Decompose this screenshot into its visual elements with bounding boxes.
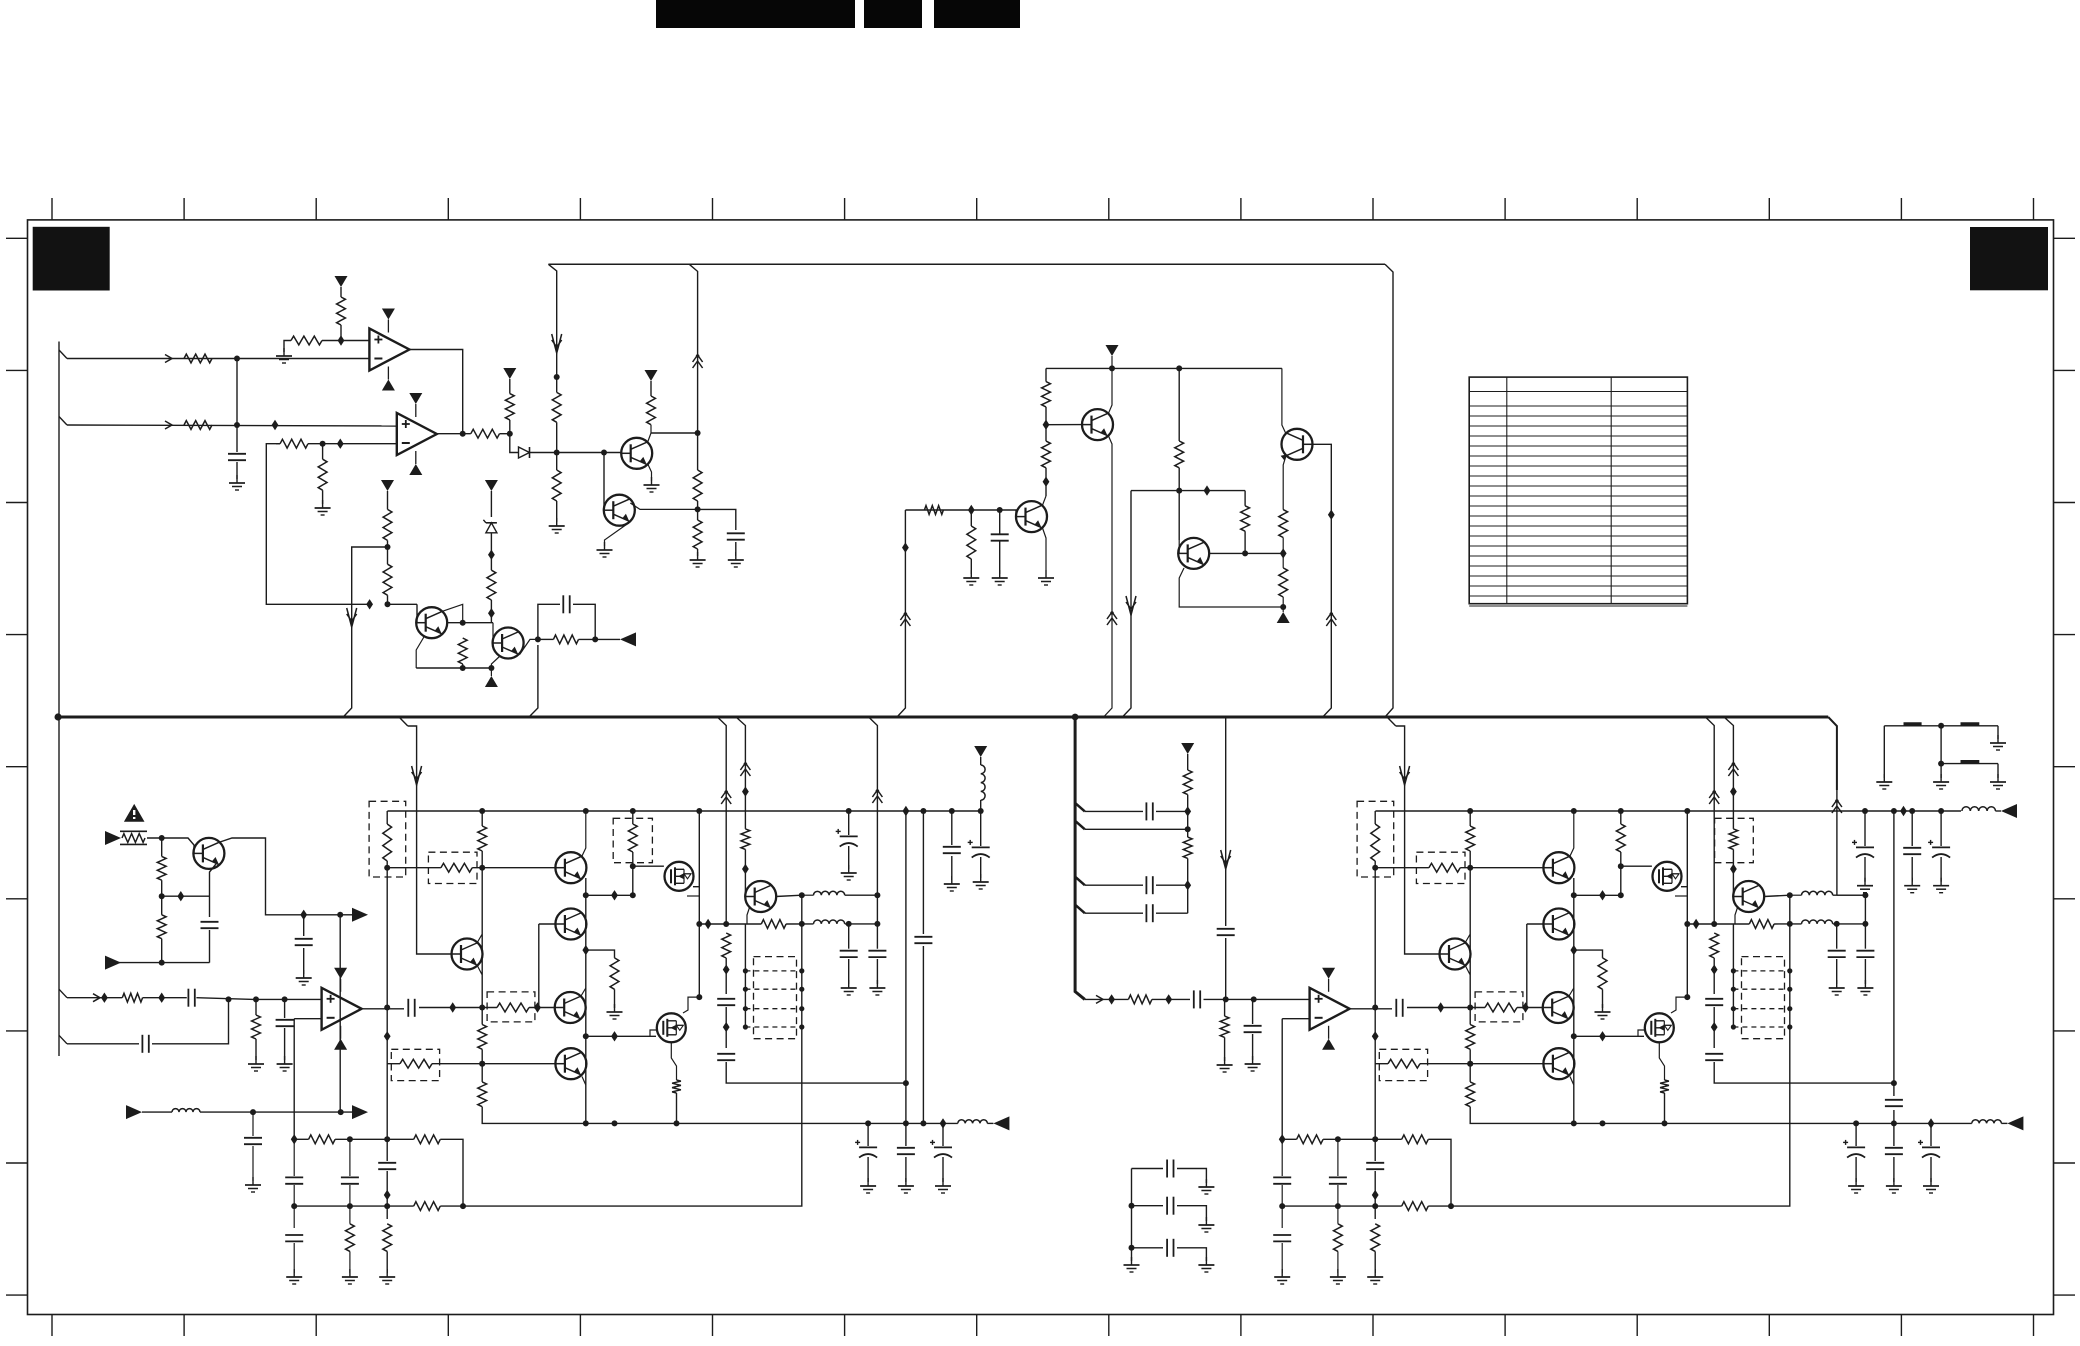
- harness wire 4b: [1156, 912, 1188, 914]
- transistor Q13: [1543, 1048, 1574, 1079]
- resistor R20: [1042, 382, 1051, 407]
- wire q14 col: [1764, 895, 1790, 896]
- capacitor C34: [188, 989, 194, 1007]
- tick bottom: [315, 1315, 317, 1337]
- junction: [320, 441, 326, 447]
- ground: [1198, 1257, 1214, 1272]
- black square (grid ref top-right): [1970, 227, 2048, 290]
- ground: [869, 980, 885, 995]
- redaction box (page): [934, 0, 1020, 28]
- junction: [1335, 1136, 1341, 1142]
- current arrows: [1221, 850, 1231, 869]
- junction: [1862, 892, 1868, 898]
- capacitor Cg3: [1918, 1140, 1940, 1158]
- tick top: [2033, 198, 2035, 220]
- junction: [55, 713, 62, 720]
- resistor Rc2: [1598, 958, 1607, 989]
- bus drop 2: [1724, 717, 1733, 829]
- dashed box (select resistor): [613, 818, 652, 862]
- thermistor RT1: [120, 831, 147, 844]
- wire cm2 gnd: [1911, 857, 1913, 882]
- wire v697 lower: [697, 501, 699, 520]
- resistor Rd2: [741, 829, 750, 850]
- wire box2 left: [1375, 867, 1429, 869]
- ground: [944, 876, 960, 891]
- op-amp U1B V- supply: [409, 464, 422, 475]
- wire l2 right: [845, 923, 878, 925]
- resistor R41: [1183, 837, 1192, 858]
- junction: [799, 1006, 804, 1011]
- wire vb: [481, 811, 483, 826]
- wire R16 top: [650, 381, 652, 396]
- wire v905: [897, 510, 905, 717]
- junction: [674, 1120, 680, 1126]
- bus elbow to right channel: [1828, 717, 1837, 790]
- junction: [1467, 865, 1473, 871]
- junction: [920, 808, 926, 814]
- tick top: [1372, 198, 1374, 220]
- wire m2 drain: [671, 1042, 676, 1080]
- wire mosfet2 gate row: [1574, 1035, 1644, 1037]
- fb row2b: [440, 1205, 463, 1207]
- junction (diamond): [1711, 964, 1718, 974]
- current arrows: [1728, 762, 1738, 776]
- wire rd2 bot: [744, 849, 746, 896]
- capacitor C32: [244, 1138, 262, 1144]
- junction: [583, 892, 589, 898]
- capacitor Cj1: [1273, 1177, 1291, 1183]
- harness wire 3: [1085, 884, 1143, 886]
- wire Q4 collector: [520, 639, 538, 654]
- fb row1c: [440, 1139, 463, 1206]
- tick bottom: [1504, 1315, 1506, 1337]
- wire node cap: [698, 509, 736, 530]
- wire cg1 gnd: [1855, 1157, 1857, 1182]
- transistor Q3: [416, 607, 447, 638]
- transistor Q7: [1178, 538, 1209, 569]
- wire r42 top: [1224, 999, 1226, 1016]
- wire va1: [1374, 811, 1376, 824]
- junction: [1280, 604, 1286, 610]
- junction: [1909, 808, 1915, 814]
- tick top: [1108, 198, 1110, 220]
- wire C4 gnd: [999, 541, 1001, 574]
- wire bias bot: [1187, 858, 1189, 913]
- current arrows: [1326, 612, 1336, 626]
- wire va2: [386, 861, 388, 1161]
- mute line2: [200, 1111, 352, 1113]
- transistor Q8: [1281, 429, 1313, 461]
- junction: [234, 422, 240, 428]
- wire ck6 gnd: [1252, 1034, 1254, 1060]
- wire v801: [801, 895, 803, 1027]
- junction: [554, 374, 560, 380]
- resistor R23: [967, 526, 976, 559]
- resistor Rd1: [628, 824, 637, 852]
- wire va3: [386, 1171, 388, 1219]
- resistor R10: [383, 564, 392, 595]
- fuse row1: [1884, 725, 1998, 727]
- power V+: [1106, 345, 1119, 356]
- wire va4: [1374, 1251, 1376, 1273]
- ground: [1198, 1179, 1214, 1194]
- junction: [554, 450, 560, 456]
- wire Q7 collector: [1209, 552, 1283, 554]
- wire va1: [386, 811, 388, 824]
- signal arrow: [165, 421, 172, 429]
- dashed box (select resistor): [1475, 992, 1523, 1022]
- wire cm1 gnd: [1864, 857, 1866, 882]
- ground: [277, 1056, 293, 1071]
- current arrows: [1126, 596, 1136, 615]
- junction (diamond): [488, 550, 495, 560]
- resistor Ri1: [252, 1015, 261, 1039]
- wire -in v: [1281, 1019, 1283, 1140]
- MOSFET M2: [1645, 1013, 1674, 1042]
- ground: [549, 518, 565, 533]
- wire chain top: [387, 491, 389, 509]
- wire v801 low: [1451, 1027, 1790, 1206]
- junction: [1787, 968, 1792, 973]
- wire R18 gnd: [697, 549, 699, 556]
- coupler dashed link: [745, 1026, 801, 1028]
- wire box2 left: [387, 867, 441, 869]
- wire Q11 base v: [538, 924, 540, 1008]
- ground: [1857, 980, 1873, 995]
- resistor Re1: [722, 933, 731, 958]
- wire Q3 emitter: [416, 636, 424, 668]
- wire cf2 gnd: [848, 959, 850, 984]
- current arrows: [1400, 766, 1410, 785]
- wire cj1: [1281, 1139, 1283, 1176]
- wire ri1 top: [255, 999, 257, 1015]
- junction (diamond): [742, 786, 749, 796]
- wire vb2: [481, 851, 483, 1025]
- wire cj3: [349, 1139, 351, 1176]
- wire Rc3 right: [432, 1063, 555, 1065]
- capacitor Ce2: [1705, 1054, 1723, 1060]
- harness wire 3b: [1156, 884, 1188, 886]
- tick left: [6, 1030, 28, 1032]
- wire Q5 emitter: [1104, 436, 1112, 717]
- wire vc1225b: [1225, 938, 1227, 999]
- junction (diamond): [384, 1190, 391, 1200]
- wire cf1 gnd: [1864, 959, 1866, 984]
- wire r31 bot: [161, 939, 163, 963]
- resistor R18: [693, 520, 702, 549]
- junction (diamond): [1372, 1031, 1379, 1041]
- wire rd1 top: [632, 811, 634, 824]
- wire v905: [905, 811, 907, 1123]
- driver row2: [786, 923, 813, 925]
- wire node to diode: [510, 434, 518, 453]
- junction: [846, 808, 852, 814]
- transistor Q9: [452, 939, 483, 970]
- speaker connector: [2007, 1116, 2023, 1130]
- speaker line end: [2001, 1122, 2007, 1124]
- wire chain mid: [387, 540, 389, 564]
- resistor Re1: [1710, 933, 1719, 958]
- capacitor Ce1: [1705, 999, 1723, 1005]
- op-amp U1A V- supply: [382, 380, 395, 391]
- wire q15 collector: [220, 838, 340, 915]
- resistor Rj3: [1402, 1202, 1429, 1211]
- driver row: [1687, 923, 1749, 925]
- tick right: [2054, 634, 2076, 636]
- capacitor Cg2: [1885, 1148, 1903, 1154]
- M2 bracket: [1671, 997, 1687, 1013]
- wire rf1 bot: [1664, 1093, 1666, 1123]
- resistor R17: [693, 470, 702, 501]
- wire Q5 base: [1046, 424, 1082, 426]
- tick right: [2054, 369, 2076, 371]
- junction (diamond): [337, 439, 344, 449]
- resistor R13: [487, 570, 496, 600]
- ground: [992, 570, 1008, 585]
- thermal row: [162, 895, 210, 897]
- wire cj1b: [293, 1185, 295, 1228]
- capacitor Ca1: [1366, 1163, 1384, 1169]
- junction: [460, 620, 466, 626]
- wire v905b: [1893, 1110, 1895, 1123]
- wire cg2 gnd: [905, 1157, 907, 1182]
- junction: [1109, 365, 1115, 371]
- resistor Ra2: [383, 1224, 392, 1252]
- junction: [535, 636, 541, 642]
- junction: [612, 1120, 618, 1126]
- capacitor C2: [563, 595, 569, 613]
- wire ck6 top: [1252, 999, 1254, 1024]
- inductor L2: [1802, 920, 1833, 924]
- resistor Rj3: [414, 1202, 441, 1211]
- resistor Rf1: [672, 1080, 681, 1093]
- op-amp U2 V- supply: [334, 1039, 347, 1050]
- junction: [1662, 1120, 1668, 1126]
- capacitor Cj2: [1273, 1235, 1291, 1241]
- wire Rc2 gnd: [614, 989, 616, 1008]
- junction: [1072, 714, 1079, 721]
- op-amp U2: [1310, 979, 1350, 1039]
- junction: [723, 921, 729, 927]
- resistor R4: [337, 297, 346, 325]
- dashed box (select resistor): [391, 1049, 439, 1080]
- junction: [583, 1120, 589, 1126]
- wire U2 +in: [254, 998, 322, 1000]
- bias feed: [1396, 726, 1440, 954]
- wire Rc1 out: [1517, 1007, 1543, 1009]
- resistor R40: [1183, 770, 1192, 795]
- capacitor C33: [142, 1035, 148, 1053]
- wire Q11 base: [1527, 923, 1544, 925]
- ground: [1330, 1269, 1346, 1284]
- wire cm1 top: [1864, 811, 1866, 846]
- wire Q1 collector: [648, 425, 651, 442]
- ground: [1274, 1269, 1290, 1284]
- wire c31 gnd: [303, 948, 305, 974]
- input wire 3: [67, 997, 122, 999]
- wire cg2 gnd: [1893, 1157, 1895, 1182]
- wire re2: [1713, 1007, 1715, 1048]
- junction: [1731, 968, 1736, 973]
- ground: [1923, 1178, 1939, 1193]
- MOSFET M1: [1653, 862, 1682, 891]
- junction: [384, 1005, 390, 1011]
- capacitor C4: [991, 534, 1009, 540]
- wire m2 drain: [1659, 1042, 1664, 1080]
- fb row1: [1282, 1138, 1296, 1140]
- input connector: [105, 956, 121, 970]
- wire zener top: [490, 491, 492, 517]
- junction: [1372, 1005, 1378, 1011]
- junction: [226, 996, 232, 1002]
- wire q14 e2: [744, 924, 746, 1027]
- tick top: [183, 198, 185, 220]
- fb row1: [294, 1138, 308, 1140]
- wire cm2 top: [1911, 811, 1913, 846]
- zener diode ZD1: [483, 520, 497, 533]
- capacitor Cg4: [1885, 1100, 1903, 1106]
- tick top: [1636, 198, 1638, 220]
- ladder wire2: [1132, 1205, 1164, 1207]
- ground: [1933, 878, 1949, 893]
- power V+: [503, 368, 516, 379]
- junction: [592, 636, 598, 642]
- capacitor Cl3: [1167, 1239, 1173, 1257]
- resistor R31: [157, 915, 166, 939]
- wire U2 out2: [419, 1007, 497, 1009]
- ground: [644, 477, 660, 492]
- inductor L2: [814, 920, 845, 924]
- capacitor Cf2: [1828, 951, 1846, 957]
- junction: [1372, 865, 1378, 871]
- power V+: [381, 480, 394, 491]
- junction (diamond): [101, 993, 108, 1003]
- inductor L4: [981, 765, 985, 800]
- ground: [841, 865, 857, 880]
- dashed box (transformer select): [754, 957, 797, 1039]
- wire R1-R2 junction link: [236, 359, 238, 453]
- wire Q12 col: [1569, 988, 1574, 996]
- resistor Rc2: [610, 958, 619, 989]
- ladder wire1b: [1177, 1169, 1206, 1184]
- wire Q4 emitter: [491, 656, 500, 676]
- junction (diamond): [1108, 994, 1115, 1004]
- junction: [507, 431, 513, 437]
- capacitor C1: [228, 454, 246, 460]
- junction: [743, 968, 748, 973]
- wire rd1 bot: [632, 852, 634, 895]
- junction (diamond): [338, 335, 345, 345]
- inductor L1: [1802, 891, 1833, 895]
- supply rail: [548, 263, 1385, 265]
- wire Q2 emitter: [605, 522, 631, 546]
- resistor Rc3: [400, 1059, 432, 1068]
- harness tap: [1075, 877, 1085, 886]
- wire va3: [1374, 1171, 1376, 1219]
- junction: [1834, 921, 1840, 927]
- wire cg3 top: [942, 1123, 944, 1146]
- wire v877r: [1836, 790, 1838, 895]
- resistor Rf1: [1660, 1080, 1669, 1093]
- wire mosfet2 gate row: [586, 1035, 656, 1037]
- input wire 3b: [143, 997, 187, 999]
- junction: [1448, 1203, 1454, 1209]
- junction (diamond): [384, 1031, 391, 1041]
- junction: [1787, 892, 1793, 898]
- right rail ext2: [1995, 810, 2001, 812]
- signal arrow: [93, 994, 100, 1002]
- wire v699: [698, 811, 700, 924]
- capacitor Cj1: [285, 1177, 303, 1183]
- current arrows: [740, 762, 750, 776]
- wire R27 bot: [1282, 538, 1284, 568]
- junction (diamond): [705, 919, 712, 929]
- bus tap: [399, 717, 408, 726]
- op-amp U2: [322, 979, 362, 1039]
- resistor Rc1: [1485, 1003, 1517, 1012]
- harness tap: [1075, 905, 1085, 914]
- wire zener bot: [490, 533, 492, 570]
- power V+: [974, 746, 987, 757]
- fuse mid drop: [1940, 726, 1942, 778]
- wire C3 gnd: [735, 542, 737, 556]
- tick left: [6, 634, 28, 636]
- wire Q7 base v: [1178, 540, 1180, 553]
- capacitor Cl1: [1167, 1160, 1173, 1178]
- tick bottom: [51, 1315, 53, 1337]
- wire r42 gnd: [1224, 1037, 1226, 1061]
- junction: [743, 1024, 748, 1029]
- resistor Rd3: [761, 920, 786, 929]
- wire R6 bottom: [509, 420, 511, 434]
- wire R8 gnd lead: [322, 490, 324, 504]
- connector arrow (to protection): [352, 1105, 368, 1119]
- wire l2 right: [1833, 923, 1866, 925]
- M1 source bracket: [1681, 886, 1687, 888]
- wire Q5 collector: [1109, 368, 1113, 413]
- wire m1 row: [586, 894, 633, 896]
- ground: [342, 1269, 358, 1284]
- power V-: [1277, 612, 1290, 623]
- wire Q9 emitter: [477, 965, 482, 975]
- tick bottom: [447, 1315, 449, 1337]
- wire vb: [1469, 811, 1471, 826]
- capacitor Cf1: [1856, 951, 1874, 957]
- input wire 4b: [152, 999, 229, 1043]
- coupler dashed link: [1733, 988, 1789, 990]
- wire Q3 collector: [443, 604, 463, 622]
- capacitor Cm3: [1928, 840, 1950, 858]
- transistor Q4: [493, 628, 524, 659]
- cap bridge left: [538, 604, 560, 639]
- speaker line: [586, 1122, 958, 1124]
- op-amp U1A V+ supply: [382, 309, 395, 320]
- wire Q4 col node: [538, 638, 554, 640]
- capacitor C30: [201, 922, 219, 928]
- ground: [935, 1178, 951, 1193]
- tick right: [2054, 1294, 2076, 1296]
- wire r30 top: [161, 838, 163, 856]
- bus drop 1: [717, 717, 726, 924]
- junction: [479, 808, 485, 814]
- junction: [347, 1136, 353, 1142]
- ground: [690, 552, 706, 567]
- harness wire 1: [1085, 810, 1143, 812]
- junction: [799, 892, 805, 898]
- junction: [1787, 921, 1793, 927]
- wire U2 -in: [1282, 1018, 1309, 1020]
- ground: [286, 1269, 302, 1284]
